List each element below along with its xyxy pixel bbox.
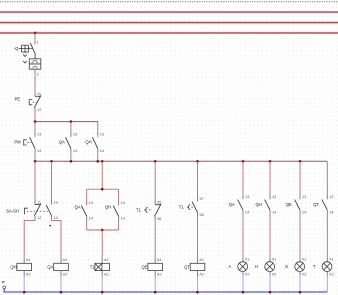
neutral wire from coil <box>197 277 199 292</box>
neutral wire from coil <box>60 277 62 292</box>
svg-text:14: 14 <box>73 149 77 153</box>
neutral wire from lamp <box>269 276 271 292</box>
svg-text:11: 11 <box>37 92 41 96</box>
junction bus / T1 NO branch <box>196 160 199 163</box>
wire feeder to QA seal-in <box>70 122 72 132</box>
svg-text:13: 13 <box>89 201 93 205</box>
coil T1 (timer relay) <box>90 257 110 276</box>
svg-text:1: 1 <box>37 40 39 44</box>
svg-text:A2: A2 <box>104 273 109 277</box>
svg-text:14: 14 <box>89 217 93 221</box>
wire selector 14 to coil QA <box>52 220 62 258</box>
junction bus / QH lamp branch <box>269 160 272 163</box>
wire QE contact to lamp <box>299 214 301 257</box>
aux contact QH (NO 13-14) <box>256 194 277 214</box>
parallel branch top bar <box>87 188 119 190</box>
aux contact QA (NO 13-14) <box>75 201 93 221</box>
neutral wire from coil <box>101 277 103 292</box>
svg-text:13: 13 <box>54 200 58 204</box>
svg-text:X1: X1 <box>329 258 334 262</box>
junction neutral rail <box>60 291 63 294</box>
junction feeder / QA branch <box>70 120 73 123</box>
phase rail L1 <box>0 11 338 13</box>
svg-text:T1: T1 <box>90 264 96 269</box>
svg-text:12: 12 <box>37 108 41 112</box>
wire bus to contact QA (lamp branch) <box>242 161 244 194</box>
svg-text:T: T <box>313 264 316 269</box>
seal-in contact QA (NO 13-14) <box>59 131 77 153</box>
svg-text:QA: QA <box>59 140 65 145</box>
junction neutral rail <box>101 291 104 294</box>
svg-text:14: 14 <box>272 211 276 215</box>
junction neutral rail <box>23 291 26 294</box>
junction bus / T1 NC branch <box>154 160 157 163</box>
wire selector 12 to coil QH <box>24 220 35 258</box>
svg-text:13: 13 <box>245 195 249 199</box>
junction neutral rail <box>196 291 199 294</box>
wire bus to contact QH (lamp branch) <box>269 161 271 194</box>
circuit breaker -Q (motor protection) <box>14 43 41 69</box>
junction bus / QH seal-in <box>97 160 100 163</box>
svg-text:13: 13 <box>73 133 77 137</box>
svg-text:13: 13 <box>272 195 276 199</box>
aux contact QT (NO 13-14) <box>313 194 333 214</box>
wire parallel pair to coil T1 <box>101 230 103 257</box>
svg-text:13: 13 <box>37 133 41 137</box>
svg-text:PE: PE <box>15 96 21 101</box>
seal-in contact QH (NO 13-14) <box>85 131 104 153</box>
wire bus to contact QE (lamp branch) <box>299 161 301 194</box>
junction bus / QA lamp branch <box>242 160 245 163</box>
aux contact QA (NO 13-14) <box>229 194 249 214</box>
wire bus to selector contact 11 <box>34 161 36 200</box>
svg-text:A1: A1 <box>157 258 162 262</box>
svg-text:14: 14 <box>37 149 41 153</box>
svg-text:X1: X1 <box>272 258 277 262</box>
parallel branch bottom bar <box>87 229 119 231</box>
wire feeder to PM <box>34 122 36 132</box>
svg-text:QH: QH <box>105 204 111 209</box>
page border (green dotted top edge) <box>0 1 338 3</box>
svg-text:A2: A2 <box>26 273 31 277</box>
svg-text:12: 12 <box>37 216 41 220</box>
coil QE (contactor) <box>142 257 163 276</box>
svg-text:A2: A2 <box>199 273 204 277</box>
junction parallel top <box>101 188 104 191</box>
svg-text:QA: QA <box>75 204 81 209</box>
neutral wire from coil <box>23 277 25 292</box>
svg-text:A1: A1 <box>63 258 68 262</box>
wire PE to feeder node <box>34 112 36 122</box>
svg-text:QE: QE <box>286 202 292 207</box>
svg-text:T1: T1 <box>179 205 185 210</box>
svg-text:13: 13 <box>100 133 104 137</box>
svg-text:A: A <box>228 264 231 269</box>
lamp H (indicator) <box>255 257 276 276</box>
wire QH to bus <box>97 153 99 161</box>
wire QH aux to bottom bar <box>118 221 120 230</box>
phase rail L2 <box>0 21 338 23</box>
junction neutral rail <box>154 291 157 294</box>
svg-text:QH: QH <box>256 202 262 207</box>
svg-text:57: 57 <box>200 197 204 201</box>
wire QH contact to lamp <box>269 214 271 257</box>
junction on L3 rail <box>34 32 37 35</box>
svg-text:55: 55 <box>157 201 161 205</box>
svg-text:2: 2 <box>37 73 39 77</box>
wire QA contact to lamp <box>242 214 244 257</box>
wire T1 NC to coil QE <box>154 220 156 257</box>
svg-text:14: 14 <box>54 216 58 220</box>
svg-text:13: 13 <box>121 201 125 205</box>
feeder wire to seal-in contacts <box>35 121 98 123</box>
coil QT (contactor) <box>184 257 205 276</box>
svg-text:X2: X2 <box>272 272 277 276</box>
wire bus to timer contact T1 57 <box>197 161 199 198</box>
svg-text:A2: A2 <box>63 273 68 277</box>
aux contact QE (NO 13-14) <box>286 194 306 214</box>
svg-text:QH: QH <box>85 140 91 145</box>
lamp A (indicator) <box>228 257 249 276</box>
svg-text:X2: X2 <box>245 272 250 276</box>
wire QA to bus <box>70 153 72 161</box>
svg-text:14: 14 <box>329 211 333 215</box>
junction bus / QA seal-in <box>70 160 73 163</box>
svg-text:QT: QT <box>313 202 319 207</box>
svg-text:56: 56 <box>157 217 161 221</box>
wire bus to parallel pair <box>101 161 103 189</box>
wire bus to timer contact T1 55 <box>154 161 156 200</box>
control bus <box>35 160 327 162</box>
svg-text:QA: QA <box>229 202 235 207</box>
coil QA (contactor) <box>47 257 68 276</box>
wire bus to contact QT (lamp branch) <box>326 161 328 194</box>
junction bus / T1 parallel branch <box>101 160 104 163</box>
svg-text:-Q: -Q <box>14 46 19 51</box>
junction neutral rail <box>299 291 302 294</box>
wire bus to selector contact 13 <box>51 161 53 200</box>
wire feeder corner to QH seal-in <box>97 121 99 131</box>
svg-text:QE: QE <box>142 264 148 269</box>
wire 1 from L3 to breaker Q <box>35 33 39 44</box>
svg-text:E: E <box>285 264 288 269</box>
wire to contact QA aux <box>86 189 88 200</box>
selector switch SA-SH (NC 11-12 / NO 13-14) <box>34 200 41 220</box>
svg-text:X2: X2 <box>302 272 307 276</box>
svg-text:A2: A2 <box>157 273 162 277</box>
svg-text:T1: T1 <box>136 207 142 212</box>
emergency stop PE (NC contact 11-12) <box>34 91 41 112</box>
svg-text:14: 14 <box>121 217 125 221</box>
svg-text:QH: QH <box>10 264 16 269</box>
svg-text:H: H <box>255 264 258 269</box>
neutral wire from lamp <box>326 276 328 292</box>
coil QH (contactor) <box>10 257 31 276</box>
junction neutral rail <box>269 291 272 294</box>
junction neutral rail <box>242 291 245 294</box>
svg-text:X1: X1 <box>302 258 307 262</box>
neutral wire from lamp <box>242 276 244 292</box>
svg-text:QT: QT <box>184 264 190 269</box>
junction feeder / PM branch <box>34 120 37 123</box>
svg-text:14: 14 <box>302 211 306 215</box>
svg-text:58: 58 <box>200 213 204 217</box>
svg-text:13: 13 <box>302 195 306 199</box>
neutral terminal N <box>1 280 5 288</box>
svg-text:N: N <box>1 280 5 283</box>
phase rail L3 <box>0 32 338 34</box>
junction bus / selector SH branch <box>50 160 53 163</box>
junction bus / QE lamp branch <box>299 160 302 163</box>
neutral wire from lamp <box>299 276 301 292</box>
lamp T (indicator) <box>313 257 334 276</box>
svg-text:X1: X1 <box>245 258 250 262</box>
svg-text:QA: QA <box>47 264 53 269</box>
svg-text:A1: A1 <box>199 258 204 262</box>
svg-text:14: 14 <box>100 149 104 153</box>
neutral wire from coil <box>154 277 156 292</box>
wire to contact QH aux <box>118 189 120 200</box>
svg-text:11: 11 <box>37 200 41 204</box>
timed contact T1 (NC 55-56) <box>155 200 162 221</box>
svg-text:13: 13 <box>329 195 333 199</box>
wire 2 from breaker Q to emergency stop PE <box>35 69 39 91</box>
start button PM (NO contact 13-14) <box>30 131 42 153</box>
wire T1 NO to coil QT <box>197 216 199 257</box>
lamp E (indicator) <box>285 257 306 276</box>
svg-text:A1: A1 <box>104 258 109 262</box>
junction bus / PM <box>34 160 37 163</box>
svg-text:SA-SH: SA-SH <box>6 208 19 213</box>
neutral rail N <box>4 289 327 292</box>
svg-text:X2: X2 <box>329 272 334 276</box>
aux contact QH (NO 13-14) <box>105 201 125 221</box>
timed contact T1 (NO 57-58) <box>192 197 204 217</box>
wire PM to bus <box>34 153 36 161</box>
svg-text:PM: PM <box>14 140 21 145</box>
junction parallel bottom <box>101 229 104 232</box>
wire QT contact to lamp <box>326 214 328 257</box>
svg-text:A1: A1 <box>26 258 31 262</box>
svg-text:14: 14 <box>245 211 249 215</box>
wire QA aux to bottom bar <box>86 221 88 230</box>
